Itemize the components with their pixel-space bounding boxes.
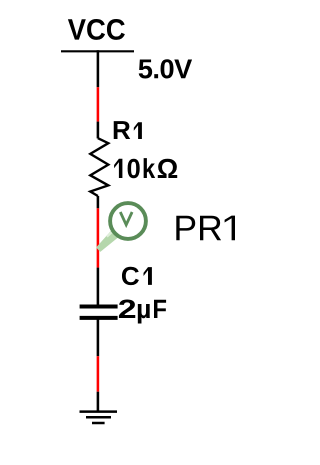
- ground bar 2: [86, 416, 111, 419]
- probe PR1 handle: [96, 228, 121, 252]
- probe PR1 designator label: [176, 216, 235, 241]
- probe PR1 letter V: [120, 212, 132, 225]
- capacitor C1 value label 2µF: [119, 300, 166, 324]
- wire net segment (red): [97, 356, 100, 392]
- resistor R1 designator label: [114, 121, 142, 139]
- wire capacitor bottom lead (black): [97, 319, 100, 356]
- ground bar 1: [80, 410, 118, 413]
- VCC power rail: [61, 50, 134, 52]
- wire capacitor top lead (black): [97, 268, 100, 305]
- wire resistor top lead (black): [97, 122, 100, 139]
- capacitor C1 top plate: [80, 305, 118, 309]
- wire VCC pin lead (black): [97, 50, 100, 87]
- wire ground lead (black): [97, 392, 100, 411]
- wire net segment (red): [97, 87, 100, 121]
- capacitor C1 bottom plate: [80, 316, 118, 320]
- wire resistor bottom lead (black): [97, 196, 100, 208]
- value label 5.0V: [139, 59, 192, 78]
- net label VCC: [68, 19, 125, 40]
- probe PR1 handle highlight streak: [107, 229, 115, 237]
- resistor R1 zigzag body: [90, 138, 108, 196]
- ground bar 3: [92, 422, 105, 425]
- wire net segment (red): [97, 208, 100, 267]
- capacitor C1 designator label: [122, 267, 152, 285]
- resistor R1 value label 10kΩ: [114, 158, 177, 178]
- probe PR1 lens circle: [110, 203, 146, 239]
